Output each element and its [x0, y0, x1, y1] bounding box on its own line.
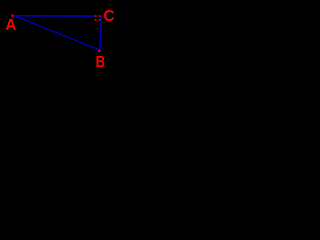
background [0, 0, 122, 94]
svg-text:B: B [96, 54, 105, 71]
node B point [98, 50, 100, 52]
right-angle marker mask at C [94, 14, 100, 21]
right-angle marker dots at C [95, 15, 100, 21]
svg-text:C: C [104, 8, 115, 25]
wire segment AB [14, 16, 100, 51]
wire segment AC [14, 15, 102, 17]
wire segment CB [100, 16, 101, 50]
svg-text:A: A [5, 16, 16, 33]
node A point [11, 14, 13, 16]
